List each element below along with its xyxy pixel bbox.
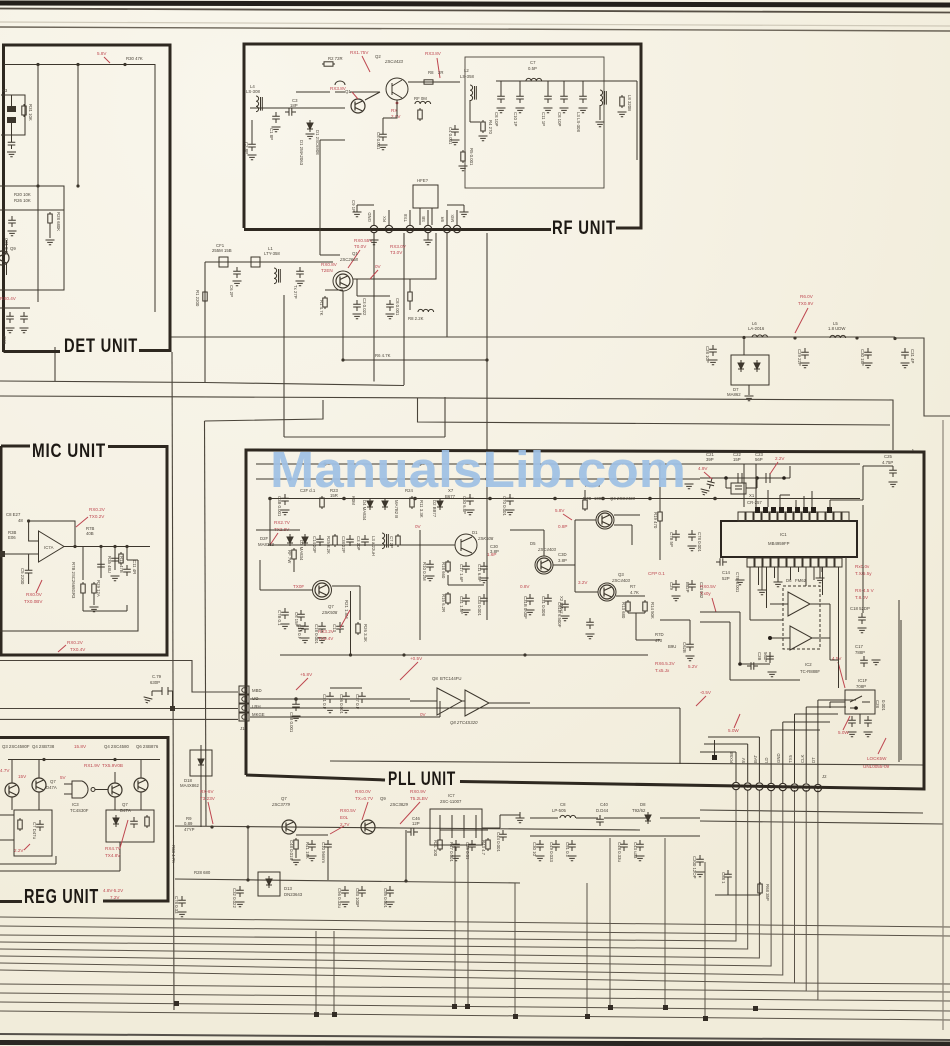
svg-text:R7D: R7D (655, 632, 664, 637)
svg-text:Q4 2SB738: Q4 2SB738 (32, 744, 55, 749)
svg-text:D6: D6 (786, 578, 792, 583)
svg-text:R15 6.2R: R15 6.2R (441, 594, 446, 612)
svg-text:C2B: C2B (757, 652, 762, 660)
svg-text:Q9: Q9 (380, 796, 386, 801)
svg-text:2SC3779: 2SC3779 (271, 802, 291, 807)
svg-text:1.6P: 1.6P (487, 552, 496, 557)
svg-text:C44 0.001: C44 0.001 (496, 832, 501, 852)
svg-text:Q9: Q9 (10, 246, 16, 251)
svg-text:2SC4403: 2SC4403 (537, 547, 557, 552)
svg-text:15P: 15P (733, 457, 741, 462)
svg-text:C7B 5P: C7B 5P (669, 532, 674, 547)
svg-text:T.x5.Jx: T.x5.Jx (655, 668, 670, 673)
svg-text:R31 10K: R31 10K (28, 104, 33, 121)
svg-text:R8: R8 (428, 70, 434, 75)
svg-text:TX3.4V: TX3.4V (318, 636, 334, 641)
svg-text:2.2V: 2.2V (775, 456, 785, 461)
svg-text:LTY-358: LTY-358 (264, 251, 280, 256)
svg-text:4.7K: 4.7K (630, 590, 639, 595)
svg-text:R13 47B: R13 47B (119, 556, 124, 573)
svg-text:C14 20P: C14 20P (312, 536, 317, 553)
svg-text:18P: 18P (290, 103, 298, 108)
svg-text:D5: D5 (530, 541, 536, 546)
svg-text:C3B 0.001: C3B 0.001 (289, 712, 294, 733)
svg-text:MB4959FP: MB4959FP (768, 541, 790, 546)
svg-text:R29 12A: R29 12A (96, 580, 101, 597)
svg-text:Q7: Q7 (281, 796, 287, 801)
svg-text:R19 470: R19 470 (653, 512, 658, 529)
svg-text:5.8V: 5.8V (97, 51, 107, 56)
svg-text:C7B 0.001: C7B 0.001 (735, 572, 740, 593)
svg-text:C18 52DP: C18 52DP (850, 606, 870, 611)
svg-text:RX3.8V: RX3.8V (330, 86, 347, 91)
svg-text:T.x0y: T.x0y (700, 591, 711, 596)
svg-text:C88 1: C88 1 (721, 872, 726, 884)
svg-text:R6 4.7K: R6 4.7K (375, 353, 391, 358)
svg-text:C3D: C3D (558, 552, 567, 557)
svg-text:2SC3829: 2SC3829 (389, 802, 409, 807)
svg-text:R4 270: R4 270 (488, 120, 493, 134)
svg-text:R20 10K: R20 10K (14, 192, 31, 197)
svg-text:R26 10K: R26 10K (14, 198, 31, 203)
svg-text:LA-2016: LA-2016 (748, 326, 765, 331)
svg-text:47YP: 47YP (184, 827, 195, 832)
svg-text:C31 4P: C31 4P (910, 349, 915, 363)
svg-text:C28: C28 (875, 700, 880, 708)
svg-text:RX0.5V: RX0.5V (700, 584, 717, 589)
svg-text:RX3.0V: RX3.0V (390, 244, 407, 249)
svg-text:56P: 56P (755, 457, 763, 462)
svg-text:R14 50K: R14 50K (650, 602, 655, 619)
svg-text:RX1.9V: RX1.9V (84, 763, 101, 768)
svg-text:ManualsLib.com: ManualsLib.com (270, 441, 686, 498)
svg-text:2SK508: 2SK508 (477, 536, 494, 541)
svg-text:C.79: C.79 (152, 674, 162, 679)
svg-text:C33: C33 (2, 336, 7, 344)
svg-text:39P: 39P (706, 457, 714, 462)
svg-text:R18 660: R18 660 (441, 562, 446, 579)
svg-text:R68 35P: R68 35P (765, 884, 770, 901)
svg-text:15.8V: 15.8V (74, 744, 87, 749)
svg-text:DET UNIT: DET UNIT (64, 336, 138, 357)
svg-text:C62B: C62B (682, 642, 687, 653)
svg-text:630P: 630P (150, 680, 160, 685)
svg-text:T.X/5.5y: T.X/5.5y (855, 571, 872, 576)
svg-text:TX0F: TX0F (293, 584, 304, 589)
svg-text:R6.0V: R6.0V (800, 294, 814, 299)
svg-text:X3: X3 (2, 88, 8, 93)
svg-text:C10 56mm: C10 56mm (321, 842, 326, 863)
svg-text:0V: 0V (420, 712, 427, 717)
svg-text:Q8: Q8 (432, 676, 438, 681)
svg-text:IC7: IC7 (448, 793, 455, 798)
svg-text:RX0.8V: RX0.8V (321, 262, 338, 267)
svg-text:0.89: 0.89 (184, 821, 193, 826)
svg-text:D8: D8 (640, 802, 646, 807)
svg-text:C8 10P: C8 10P (494, 112, 499, 126)
svg-text:C11 1P: C11 1P (541, 112, 546, 126)
svg-text:CLK: CLK (800, 755, 805, 763)
svg-text:RX-4.5 V: RX-4.5 V (855, 588, 875, 593)
svg-text:52P: 52P (722, 576, 730, 581)
svg-text:MKGE: MKGE (252, 712, 265, 717)
svg-text:BTC144FU: BTC144FU (440, 676, 462, 681)
svg-text:48: 48 (18, 518, 23, 523)
svg-text:LOCK5W: LOCK5W (867, 756, 887, 761)
svg-text:B52P: B52P (685, 582, 690, 593)
svg-text:C61B 6.500F: C61B 6.500F (557, 602, 562, 628)
svg-text:D3 MA834: D3 MA834 (299, 540, 304, 561)
svg-text:C49 0.033: C49 0.033 (549, 842, 554, 862)
svg-text:C10 1P: C10 1P (513, 112, 518, 126)
svg-text:TX0.9V: TX0.9V (798, 301, 814, 306)
svg-text:CFP 0.1: CFP 0.1 (648, 571, 665, 576)
svg-text:TX5.9V0B: TX5.9V0B (102, 763, 123, 768)
svg-text:1.8 UDW: 1.8 UDW (828, 326, 846, 331)
svg-text:RX0.4V: RX0.4V (0, 296, 17, 301)
svg-text:+5.8V: +5.8V (300, 672, 313, 677)
svg-text:2SC-11007: 2SC-11007 (440, 799, 462, 804)
svg-text:TX0.2V: TX0.2V (89, 514, 105, 519)
svg-text:D2F: D2F (260, 536, 268, 541)
svg-text:RX0.2V: RX0.2V (89, 507, 106, 512)
svg-text:MIC UNIT: MIC UNIT (32, 441, 106, 462)
svg-text:560P: 560P (763, 652, 768, 662)
svg-text:J1: J1 (240, 726, 245, 731)
svg-text:RX4.7V: RX4.7V (105, 846, 122, 851)
svg-text:C40: C40 (600, 802, 608, 807)
svg-text:FM62: FM62 (795, 578, 807, 583)
svg-text:12P: 12P (412, 821, 420, 826)
svg-text:C11 4R: C11 4R (132, 560, 137, 574)
svg-text:RX0.0V: RX0.0V (355, 789, 372, 794)
svg-text:R26 3.3K: R26 3.3K (363, 624, 368, 642)
svg-text:R11 3.3K: R11 3.3K (419, 500, 424, 518)
svg-text:C55 0.001: C55 0.001 (383, 888, 388, 908)
svg-text:3.8P: 3.8P (558, 558, 567, 563)
svg-text:Q7: Q7 (328, 604, 334, 609)
svg-text:708P: 708P (856, 684, 866, 689)
svg-text:C6 2P: C6 2P (229, 285, 234, 297)
svg-text:R33 4.7K: R33 4.7K (171, 845, 176, 863)
svg-text:C32 0.022: C32 0.022 (232, 888, 237, 908)
svg-text:L3 LS-308: L3 LS-308 (576, 112, 581, 132)
svg-text:C7 D47u: C7 D47u (32, 822, 37, 840)
svg-text:R2L 100: R2L 100 (433, 840, 438, 857)
svg-text:D1 2MA2063: D1 2MA2063 (299, 140, 304, 166)
svg-text:E0L: E0L (340, 815, 349, 820)
svg-text:RF 7W: RF 7W (287, 550, 292, 564)
svg-text:RX5B: RX5B (729, 752, 734, 763)
svg-text:2SC2668: 2SC2668 (339, 257, 359, 262)
svg-text:R5 0.001: R5 0.001 (469, 148, 474, 166)
svg-text:4.9V: 4.9V (698, 466, 708, 471)
svg-text:R35 48U: R35 48U (107, 556, 112, 573)
svg-text:788P: 788P (855, 650, 865, 655)
svg-text:Q3 2SC4580F: Q3 2SC4580F (2, 744, 30, 749)
svg-text:Q1: Q1 (352, 251, 358, 256)
svg-text:R2 72R: R2 72R (328, 56, 343, 61)
svg-text:C17: C17 (855, 644, 863, 649)
svg-text:Tx 27P: Tx 27P (293, 285, 298, 299)
svg-text:2.2V: 2.2V (14, 848, 24, 853)
svg-text:RX3.2V: RX3.2V (318, 629, 335, 634)
svg-text:IC7A: IC7A (44, 545, 54, 550)
svg-text:IC2: IC2 (805, 662, 812, 667)
svg-text:0.001: 0.001 (881, 700, 886, 711)
svg-text:5.0W: 5.0W (838, 730, 849, 735)
svg-text:RX2.7V: RX2.7V (274, 520, 291, 525)
svg-text:C11 6.8P: C11 6.8P (477, 564, 482, 582)
svg-text:RX: RX (391, 108, 397, 113)
svg-text:R28 680: R28 680 (194, 870, 211, 875)
svg-text:L3 a 22uH: L3 a 22uH (371, 536, 376, 556)
svg-text:B9U: B9U (668, 644, 676, 649)
svg-text:IC1: IC1 (780, 532, 787, 537)
svg-text:Q8 2TC4S320: Q8 2TC4S320 (450, 720, 478, 725)
svg-text:C3 0.022: C3 0.022 (362, 298, 367, 316)
svg-text:RX0.5V: RX0.5V (340, 808, 357, 813)
svg-text:15V: 15V (18, 774, 27, 779)
svg-text:2SC4433: 2SC4433 (384, 59, 404, 64)
svg-text:R7: R7 (630, 584, 636, 589)
svg-text:Q3: Q3 (618, 572, 624, 577)
svg-text:C19 0.F: C19 0.F (297, 624, 302, 640)
svg-text:R8 2.2K: R8 2.2K (408, 316, 424, 321)
svg-text:GND: GND (776, 753, 781, 763)
svg-text:C9 1P: C9 1P (351, 200, 356, 212)
svg-text:Q7: Q7 (50, 779, 56, 784)
svg-text:T5.2LBV: T5.2LBV (410, 796, 429, 801)
svg-text:T3.23V: T3.23V (200, 796, 216, 801)
svg-text:T92/62: T92/62 (632, 808, 646, 813)
svg-text:R7B 2SC2668GR3: R7B 2SC2668GR3 (71, 562, 76, 599)
svg-text:LD: LD (764, 758, 769, 764)
svg-text:C25: C25 (884, 454, 892, 459)
svg-text:0.8P: 0.8P (558, 524, 567, 529)
svg-text:R41 18K: R41 18K (305, 842, 310, 859)
svg-text:BAT: BAT (753, 755, 758, 763)
svg-text:C36 0.001: C36 0.001 (339, 694, 344, 714)
svg-text:5.0W: 5.0W (728, 728, 739, 733)
svg-text:C31 0.008: C31 0.008 (541, 596, 546, 616)
svg-text:R30 47K: R30 47K (126, 56, 143, 61)
svg-text:R10 0.2M: R10 0.2M (422, 562, 427, 581)
svg-text:MA4X862: MA4X862 (180, 783, 199, 788)
svg-text:C53 100P: C53 100P (355, 888, 360, 907)
svg-text:C7B 0.1: C7B 0.1 (277, 610, 282, 626)
svg-text:DT: DT (811, 757, 816, 763)
svg-text:D47A: D47A (46, 785, 57, 790)
svg-text:RX1.75V: RX1.75V (350, 50, 369, 55)
svg-text:D1: D1 (472, 530, 478, 535)
svg-text:C3 20P: C3 20P (356, 536, 361, 550)
svg-text:L8 320B: L8 320B (627, 95, 632, 111)
svg-text:C8 0.001: C8 0.001 (395, 298, 400, 316)
svg-text:LP-505: LP-505 (552, 808, 566, 813)
svg-text:C31B 0.00F: C31B 0.00F (523, 596, 528, 619)
svg-text:R1 2200: R1 2200 (195, 290, 200, 307)
svg-text:UNL0055-09: UNL0055-09 (863, 764, 889, 769)
svg-text:40B: 40B (86, 531, 94, 536)
svg-text:RX-6V: RX-6V (200, 789, 214, 794)
svg-text:MBD: MBD (252, 688, 262, 693)
svg-text:C31 1.5P: C31 1.5P (459, 596, 464, 614)
svg-text:2.7V: 2.7V (340, 822, 350, 827)
svg-text:3.2V: 3.2V (578, 580, 588, 585)
svg-text:CR-257: CR-257 (747, 500, 762, 505)
svg-text:IC1F: IC1F (858, 678, 868, 683)
svg-text:C14: C14 (722, 570, 730, 575)
svg-text:REG UNIT: REG UNIT (24, 886, 99, 908)
svg-text:C18 0.001: C18 0.001 (314, 624, 319, 644)
svg-text:C37 0.F: C37 0.F (355, 694, 360, 710)
svg-text:MA862: MA862 (727, 392, 741, 397)
svg-text:D.D44: D.D44 (596, 808, 609, 813)
svg-text:5.8V: 5.8V (555, 508, 565, 513)
svg-text:C31 0.F: C31 0.F (322, 694, 327, 710)
svg-text:C56 0.33u: C56 0.33u (337, 888, 342, 908)
svg-text:C29: C29 (669, 582, 674, 590)
svg-text:9R: 9R (440, 217, 445, 223)
svg-text:R1 4.7K: R1 4.7K (319, 300, 324, 316)
svg-text:DN23643: DN23643 (284, 892, 303, 897)
svg-text:Q4 2SC4580: Q4 2SC4580 (104, 744, 129, 749)
svg-text:GND: GND (367, 212, 372, 222)
svg-text:Q7: Q7 (122, 802, 128, 807)
svg-text:MIX: MIX (450, 214, 455, 222)
svg-text:C3B 0.001: C3B 0.001 (277, 496, 282, 517)
svg-text:C7: C7 (530, 60, 536, 65)
svg-text:2SC4403: 2SC4403 (611, 578, 631, 583)
svg-text:0.5P: 0.5P (528, 66, 537, 71)
svg-text:IC3: IC3 (72, 802, 79, 807)
svg-text:C78 0.33: C78 0.33 (174, 896, 179, 914)
svg-text:TX0.4V: TX0.4V (70, 647, 86, 652)
svg-text:5V: 5V (741, 758, 746, 763)
svg-text:C8 0.001: C8 0.001 (376, 132, 381, 150)
svg-text:TX4.8V: TX4.8V (105, 853, 121, 858)
svg-text:C5 2200: C5 2200 (20, 568, 25, 585)
svg-text:4.8V-5.2V: 4.8V-5.2V (103, 888, 124, 893)
svg-text:7.2V: 7.2V (110, 895, 120, 900)
svg-text:C17 1.6P: C17 1.6P (459, 564, 464, 582)
svg-text:LS-308: LS-308 (246, 89, 260, 94)
svg-text:255M 15B: 255M 15B (212, 248, 232, 253)
svg-text:RF 0M: RF 0M (414, 96, 427, 101)
svg-text:C8 10P: C8 10P (557, 112, 562, 126)
svg-text:J2: J2 (822, 774, 827, 779)
svg-text:R28 680K: R28 680K (56, 212, 61, 231)
svg-text:C1 8P: C1 8P (269, 128, 274, 140)
svg-text:C8: C8 (560, 802, 566, 807)
svg-text:R13 680: R13 680 (621, 602, 626, 619)
svg-text:SB: SB (421, 216, 426, 222)
svg-text:C48 0.018: C48 0.018 (289, 840, 294, 860)
svg-text:C28 10P: C28 10P (705, 346, 710, 363)
svg-text:TX0.0BV: TX0.0BV (24, 599, 43, 604)
svg-text:X1: X1 (749, 493, 755, 498)
svg-text:470: 470 (655, 638, 663, 643)
svg-text:D1 2SC6908: D1 2SC6908 (315, 130, 320, 155)
svg-text:C30 18P: C30 18P (860, 349, 865, 366)
svg-text:C70 0.001: C70 0.001 (502, 496, 507, 516)
svg-text:D4 MA834: D4 MA834 (362, 500, 367, 521)
svg-text:+0.5V: +0.5V (410, 656, 423, 661)
svg-text:RX0.9V: RX0.9V (410, 789, 427, 794)
svg-text:D2 BB77: D2 BB77 (432, 500, 437, 518)
svg-text:C4 0.001: C4 0.001 (448, 127, 453, 145)
svg-text:RX0.2V: RX0.2V (67, 640, 84, 645)
svg-text:TX=0.7V: TX=0.7V (355, 796, 374, 801)
svg-text:RX3.8V: RX3.8V (425, 51, 442, 56)
svg-text:HFE?: HFE? (417, 178, 429, 183)
svg-text:C48 0.33u: C48 0.33u (617, 842, 622, 862)
svg-text:0V: 0V (375, 264, 382, 269)
svg-text:D47A: D47A (120, 808, 131, 813)
svg-text:5.2V: 5.2V (688, 664, 698, 669)
svg-text:T3.0V: T3.0V (390, 250, 403, 255)
svg-text:2SK508: 2SK508 (321, 610, 338, 615)
svg-text:5V: 5V (60, 775, 67, 780)
svg-text:RX0.0V: RX0.0V (26, 592, 43, 597)
svg-text:C78 0.001: C78 0.001 (697, 532, 702, 552)
svg-text:RF UNIT: RF UNIT (552, 218, 616, 239)
svg-text:Q2: Q2 (375, 54, 381, 59)
svg-text:C8 E27: C8 E27 (6, 512, 21, 517)
svg-text:PLL UNIT: PLL UNIT (388, 769, 456, 790)
svg-text:TC4S30F: TC4S30F (70, 808, 89, 813)
svg-text:RX: RX (382, 216, 387, 222)
svg-text:C51 0.1: C51 0.1 (565, 842, 570, 858)
svg-text:MA7B2 B: MA7B2 B (394, 500, 399, 518)
svg-text:T0.0V: T0.0V (354, 244, 367, 249)
svg-text:TC-R888F: TC-R888F (800, 669, 820, 674)
svg-text:C29 22P: C29 22P (797, 349, 802, 366)
svg-text:4.7V: 4.7V (0, 768, 10, 773)
svg-text:C43 u33: C43 u33 (633, 842, 638, 859)
svg-text:C30 10: C30 10 (532, 842, 537, 856)
svg-text:T.8.0V: T.8.0V (855, 595, 869, 600)
svg-text:T2EN: T2EN (321, 268, 333, 273)
svg-text:Q6 2SB876: Q6 2SB876 (136, 744, 159, 749)
svg-text:4.75P: 4.75P (882, 460, 893, 465)
svg-text:-0.5V: -0.5V (700, 690, 712, 695)
svg-text:TX8: TX8 (403, 214, 408, 222)
svg-text:C200 12OP: C200 12OP (692, 856, 697, 879)
svg-text:0.8V: 0.8V (520, 584, 530, 589)
svg-text:0V: 0V (415, 524, 422, 529)
svg-text:C38 22P: C38 22P (341, 536, 346, 553)
svg-text:LS-358: LS-358 (460, 74, 474, 79)
svg-text:C33 0.001: C33 0.001 (477, 596, 482, 616)
svg-text:D13: D13 (284, 886, 292, 891)
svg-text:2R: 2R (438, 70, 444, 75)
svg-text:C2 8P: C2 8P (244, 142, 249, 154)
svg-text:RX6.5.3V: RX6.5.3V (655, 661, 676, 666)
svg-text:TX5: TX5 (788, 755, 793, 763)
svg-text:E06: E06 (8, 535, 16, 540)
svg-text:C7 2P: C7 2P (389, 536, 394, 548)
